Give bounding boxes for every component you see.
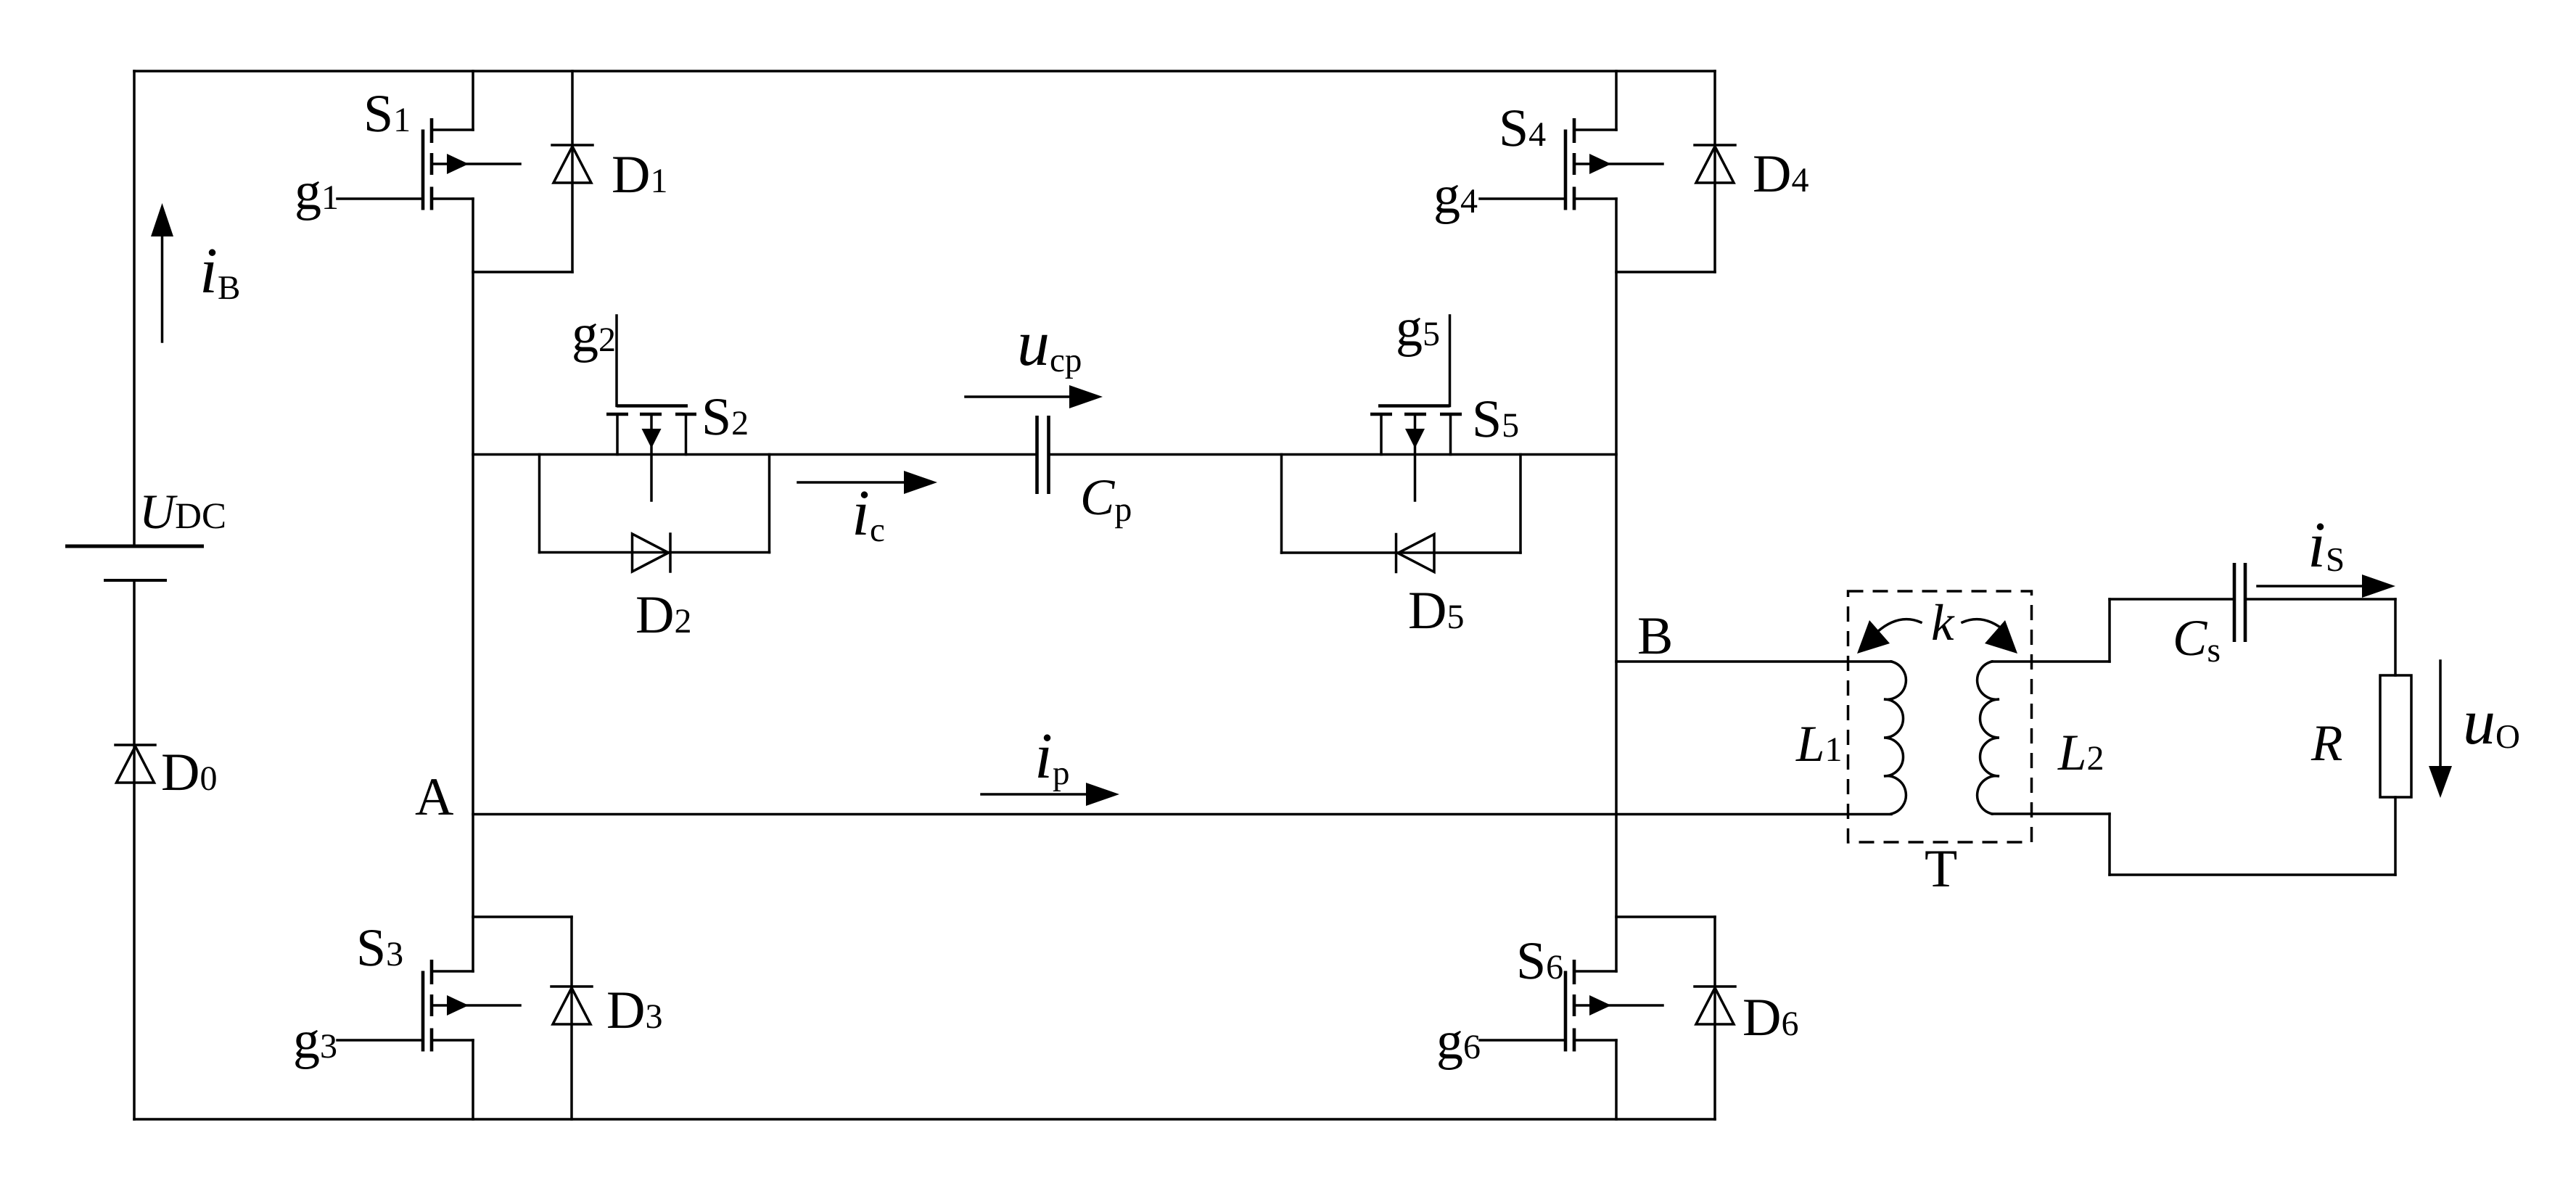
wire left rail lower (battery to bottom rail) — [133, 580, 136, 1119]
wire right bridge leg x=2228 (S4 drain from top rail) — [1615, 71, 1618, 130]
wire top rail — [134, 70, 1715, 73]
wire D5 right vertical — [1519, 455, 1522, 553]
capacitor Cs — [2234, 563, 2245, 642]
diode D3 — [473, 917, 592, 1119]
svg-text:A: A — [415, 767, 453, 827]
Cs right plate — [2244, 563, 2247, 642]
S5 body arrow — [1414, 414, 1417, 501]
wire S3 drain stub — [432, 970, 473, 973]
wire load branch lower — [2394, 797, 2397, 875]
svg-text:T: T — [1925, 839, 1957, 899]
S6 body arrow — [1575, 1004, 1663, 1007]
wire S2 right stub — [685, 414, 688, 455]
wire right bridge leg x=2228 (S6 source to bottom rail) — [1615, 1040, 1618, 1119]
wire left rail upper (to battery) — [133, 71, 136, 546]
wire S3 source stub — [432, 1039, 473, 1042]
wire right bridge leg x=2228 (S4 source through node B to S6 drain) — [1615, 199, 1618, 971]
S5 channel segments — [1370, 413, 1462, 416]
inductor L1 (primary winding) — [1884, 662, 1906, 814]
Cp right plate — [1047, 416, 1050, 494]
wire S5 right stub — [1449, 414, 1452, 455]
wire left bridge leg x=652 (S3 source to bottom rail) — [472, 1040, 474, 1119]
wire S1 source stub — [432, 197, 473, 200]
S2 gate bar — [617, 404, 688, 408]
Cs left plate — [2233, 563, 2236, 642]
Cp left plate — [1035, 416, 1039, 494]
transistor S5 (MOSFET, horizontal) — [1370, 316, 1462, 501]
arrow ic (capacitor current) — [798, 481, 907, 484]
wire S5 gate lead g5 — [1449, 316, 1452, 406]
arrow iB (battery current) — [161, 234, 164, 342]
transistor S3 (MOSFET) — [337, 960, 520, 1052]
transistor S4 (MOSFET) — [1480, 118, 1663, 210]
wire D4 vertical — [1713, 71, 1716, 272]
capacitor Cp — [1037, 416, 1049, 494]
wire D6 vertical — [1713, 917, 1716, 1119]
D6 triangle — [1696, 988, 1734, 1024]
wire D2 left vertical — [538, 455, 541, 553]
wire S2 gate lead g2 — [615, 316, 618, 406]
D5 cathode bar — [1395, 535, 1398, 572]
wire D1 vertical — [571, 71, 574, 272]
wire node A to transformer L1 bottom — [473, 813, 1891, 816]
wire S5 left stub — [1380, 414, 1383, 455]
transistor S1 (MOSFET) — [337, 118, 520, 210]
wire D3 cathode link to S3 drain — [473, 915, 572, 918]
svg-text:k: k — [1931, 595, 1955, 651]
battery UDC negative plate — [104, 579, 167, 582]
wire S3 gate lead g3 — [337, 1039, 423, 1042]
S3 gate bar — [421, 971, 425, 1052]
diode D5 — [1282, 455, 1521, 572]
wire secondary top left of Cs — [2110, 598, 2234, 601]
D2 cathode bar — [669, 534, 672, 572]
svg-text:R: R — [2310, 715, 2342, 772]
diode D0 triangle — [117, 746, 155, 783]
wire S4 drain stub — [1575, 128, 1616, 131]
arrow ucp (capacitor voltage) — [966, 395, 1072, 398]
wire D2 row — [540, 551, 770, 554]
wire D1 anode link to S1 source — [473, 271, 572, 273]
coupling k left arrow — [1877, 619, 1921, 632]
diode D1 — [473, 71, 593, 272]
D3 cathode bar — [551, 985, 592, 988]
wire D4 anode link to S4 source — [1616, 271, 1715, 273]
diode D4 — [1616, 71, 1735, 272]
S2 channel segments — [606, 413, 696, 416]
coupling k right arrow — [1962, 619, 2006, 632]
wire D3 vertical — [570, 917, 573, 1119]
diode D0 cathode bar — [115, 744, 155, 746]
wire D2 right vertical — [768, 455, 771, 553]
wire D5 left vertical — [1280, 455, 1283, 553]
wire left bridge leg x=652 (S1 source through node A to S3 drain) — [472, 199, 474, 971]
wire L2 top lead — [1992, 660, 2110, 663]
D5 triangle — [1398, 535, 1434, 572]
S2 body arrow — [650, 414, 653, 501]
transformer T dashed box — [1848, 591, 2032, 842]
D1 cathode bar — [552, 144, 593, 147]
diode D2 — [540, 455, 770, 572]
wire middle branch left of Cp (S2 row) — [473, 453, 1037, 456]
wire bottom rail — [134, 1118, 1715, 1121]
wire secondary bottom return — [2110, 873, 2395, 876]
S5 gate bar — [1378, 404, 1450, 408]
inductor L2 (secondary winding) — [1978, 662, 1999, 814]
S4 channel segments — [1573, 118, 1576, 210]
wire S1 drain stub — [432, 128, 473, 131]
S4 gate bar — [1564, 130, 1568, 210]
S4 body arrow — [1575, 162, 1663, 165]
D1 triangle — [554, 147, 591, 183]
S3 body arrow — [432, 1004, 520, 1007]
arrow uO (output voltage) — [2439, 661, 2442, 769]
resistor R — [2380, 675, 2411, 797]
wire middle branch right of Cp (S5 row) — [1049, 453, 1617, 456]
wire S1 gate lead g1 — [337, 197, 423, 200]
wire S6 drain stub — [1575, 970, 1616, 973]
S1 body arrow — [432, 162, 520, 165]
transistor S6 (MOSFET) — [1480, 960, 1663, 1052]
wire load branch upper — [2394, 599, 2397, 675]
wire secondary left riser down — [2108, 814, 2111, 875]
S6 gate bar — [1564, 971, 1568, 1052]
D4 cathode bar — [1695, 144, 1735, 147]
D4 triangle — [1696, 147, 1734, 183]
wire S4 source stub — [1575, 197, 1616, 200]
D6 cathode bar — [1695, 985, 1735, 988]
wire L2 bottom lead — [1992, 812, 2110, 815]
transistor S2 (MOSFET, horizontal) — [606, 316, 696, 501]
wire S6 source stub — [1575, 1039, 1616, 1042]
wire D6 cathode link to S6 drain — [1616, 915, 1715, 918]
D3 triangle — [553, 988, 590, 1024]
diode D6 — [1616, 917, 1735, 1119]
S6 channel segments — [1573, 960, 1576, 1052]
arrow ip (primary current) — [982, 793, 1089, 796]
wire secondary left riser up — [2108, 599, 2111, 662]
svg-text:B: B — [1637, 606, 1673, 666]
wire node B to transformer L1 top — [1616, 660, 1891, 663]
wire S4 gate lead g4 — [1480, 197, 1565, 200]
battery UDC positive plate — [65, 545, 204, 548]
D2 triangle — [633, 534, 669, 572]
S1 channel segments — [430, 118, 434, 210]
wire S6 gate lead g6 — [1480, 1039, 1565, 1042]
arrow iS (secondary current) — [2258, 585, 2366, 588]
wire secondary top right of Cs — [2245, 598, 2395, 601]
S3 channel segments — [430, 960, 434, 1052]
wire left bridge leg x=652 (S1 drain from top rail) — [472, 71, 474, 130]
wire D5 row — [1282, 551, 1521, 554]
wire S2 left stub — [616, 414, 619, 455]
S1 gate bar — [421, 130, 425, 210]
